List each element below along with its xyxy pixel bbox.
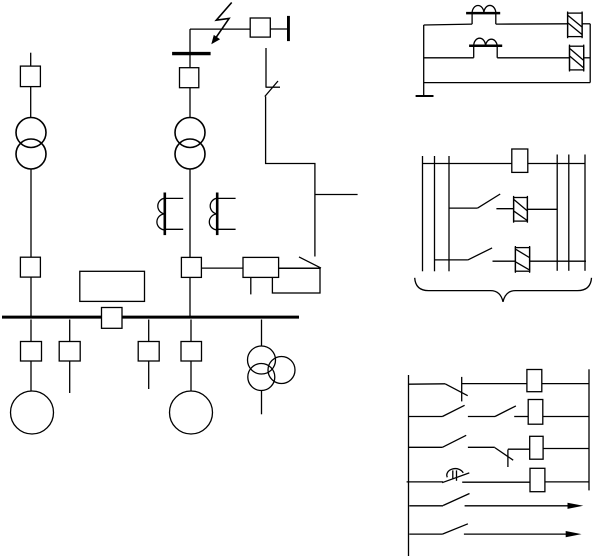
main busbar (thick) (2, 316, 299, 319)
generator G1 (11, 391, 54, 434)
wire: rung 1 left (423, 163, 512, 165)
breaker Q5 (trunk square above bus) (181, 257, 201, 277)
wire: relay box to switch (279, 267, 321, 269)
wire: rung 3 left (409, 446, 443, 448)
wire: rung 4 to coil (462, 481, 530, 483)
feeder 5 wire above (261, 320, 263, 347)
wire: trunk upper (189, 29, 191, 68)
relay device box K6 (lower, offset) (272, 268, 320, 293)
wire: disconnector branch lower L-run (266, 97, 315, 257)
breaker Q6 (feeder 1) (21, 342, 42, 362)
wire: rung 2 right (543, 416, 589, 418)
relay K5m (hatched box, rung 3) (515, 246, 529, 273)
NC contact blade (rung 1) (445, 384, 468, 396)
wire: rung 3 right (543, 448, 589, 450)
relay coil KT4 (530, 468, 545, 491)
left rail L2 (434, 156, 436, 271)
wire: stub below relay box (250, 277, 252, 294)
transformer T2 (two-winding) (175, 118, 205, 170)
feeder 2 wire above (69, 320, 71, 342)
wire: rung 2 right (527, 208, 557, 210)
lightning arrow (fault indicator) (211, 3, 231, 45)
output arrow (rung 6) (464, 531, 582, 537)
relay device box K5 (243, 257, 279, 277)
wire: trunk to relay box (201, 267, 243, 269)
breaker Q4 (trunk upper square) (180, 68, 199, 88)
contact blade 1 (rung 2, open) (442, 405, 464, 416)
right rail R1 (556, 155, 558, 271)
wire: rung 5 left (409, 505, 443, 507)
feeder 4 wire below (190, 361, 192, 391)
wire: rung 4 right (545, 481, 589, 483)
wire: rung 3 left (435, 259, 468, 261)
wire: to relay K2 (497, 57, 569, 59)
relay K1 (hatched box) (568, 12, 583, 39)
wire: rung 1 left (409, 383, 446, 385)
relay K4 (hatched box, rung 2) (514, 196, 528, 223)
wire: right rail of secondary loop (589, 24, 591, 83)
feeder 4 wire above (190, 320, 192, 342)
feeder 2 stub below (69, 361, 71, 393)
wire: secondary loop mid left (424, 57, 474, 59)
breaker Q8 (feeder 3) (138, 342, 159, 362)
contact blade (rung 6, open) (442, 524, 468, 534)
wire: rung 1 right (542, 383, 589, 385)
right rail (bottom ladder) (588, 369, 590, 490)
current transformer TA3 core bar (466, 12, 500, 15)
bus-tie breaker (square on bus) (102, 308, 123, 329)
contact blade 1 (rung 3, open) (442, 435, 466, 447)
wire: to line terminal (270, 28, 287, 30)
wire: rung 2 to coil (514, 416, 528, 418)
contact blade (rung 3, open) (468, 248, 492, 260)
contact blade (rung 4, open) (442, 473, 469, 483)
ground lead (CT secondary circuit) (423, 25, 425, 96)
feeder 1 wire above (30, 320, 32, 342)
wire: secondary loop bottom return (424, 82, 591, 84)
NC contact bar (rung 3) (507, 450, 509, 468)
wire: rung 3 to coil (508, 448, 530, 450)
current transformer TA3 winding (472, 5, 496, 24)
right rail R2 (568, 155, 570, 271)
wire: rung 3 middle (493, 260, 516, 262)
left rail L3 (448, 156, 450, 271)
transformer T1 (two-winding) (16, 118, 46, 170)
wire: left branch to transformer (30, 87, 32, 118)
three-winding transformer T3 (248, 346, 296, 391)
wire: rung 2 middle (468, 416, 495, 418)
line terminal bar (287, 16, 290, 41)
left rail L1 (422, 156, 424, 271)
wire: trunk to transformer (189, 88, 191, 118)
wire: rung 2 left (449, 207, 478, 209)
wire: rung 2 middle (496, 208, 513, 210)
wire: left branch lower (30, 169, 32, 257)
relay coil KT2 (528, 400, 543, 425)
breaker Q1 (left branch upper square) (20, 66, 40, 87)
breaker Q9 (feeder 4) (181, 342, 202, 362)
latch ticks (rung 4) (453, 470, 457, 480)
wire: rung 3 right (530, 260, 586, 262)
wire: rung 3 middle (468, 446, 495, 448)
relay coil KT3 (530, 436, 543, 459)
current transformer TA2 (right of trunk) (209, 193, 235, 236)
relay coil K3 (plain box) (512, 149, 528, 172)
wire: K1 to right rail (582, 23, 590, 25)
NC contact blade (rung 3) (495, 448, 513, 461)
right rail R3 (584, 155, 586, 271)
wire: left branch into bus (30, 277, 32, 316)
disconnector QS2 blade (open) (299, 257, 321, 268)
wire: K2 to right rail (584, 57, 591, 59)
wire: rung 2 left (409, 416, 443, 418)
wire: incoming line horizontal (190, 28, 250, 30)
feeder 3 wire above (148, 320, 150, 342)
label box (rectangle above bus) (80, 271, 145, 301)
relay coil KT1 (527, 370, 542, 392)
wire: disconnector branch upper (265, 48, 267, 87)
wire: trunk into bus (189, 277, 191, 316)
breaker Q3 (incoming line square) (250, 18, 270, 37)
ground (416, 95, 434, 97)
contact blade 2 (rung 2, open) (495, 406, 516, 417)
current transformer TA4 core bar (469, 45, 502, 48)
current transformer TA4 winding (474, 38, 498, 58)
wire: rung 4 left (407, 481, 444, 483)
disconnector QS1 (tick and blade) (265, 81, 280, 97)
contact blade (rung 2, open) (478, 194, 501, 208)
brace (curly, under ladder) (415, 278, 592, 302)
breaker Q7 (feeder 2) (59, 342, 80, 362)
output arrow (rung 5) (465, 503, 584, 509)
feeder 5 stub below (261, 391, 263, 415)
contact blade (rung 5, open) (443, 494, 469, 506)
wire: rung 6 left (409, 533, 442, 535)
wire: rung 1 right (528, 163, 585, 165)
current transformer TA1 (left of trunk) (157, 193, 183, 236)
breaker Q2 (left branch lower square) (20, 257, 40, 277)
wire: secondary loop top left (424, 23, 472, 26)
NC contact bar (rung 1) (461, 377, 463, 402)
feeder 1 wire below (30, 361, 32, 391)
relay K2 (hatched box) (570, 45, 584, 72)
wire: rung 1 middle (462, 383, 527, 385)
generator G2 (170, 391, 213, 434)
wire: left branch top stub (30, 53, 32, 66)
mechanical-latch arc (rung 4) (447, 469, 463, 478)
wire: stub to right (315, 194, 358, 196)
busbar section (top middle thick bar) (172, 52, 211, 55)
wire: trunk through CT zone (189, 169, 191, 257)
left rail (bottom ladder) (408, 375, 410, 556)
wire: to relay K1 (496, 23, 568, 25)
feeder 3 stub below (148, 361, 150, 389)
